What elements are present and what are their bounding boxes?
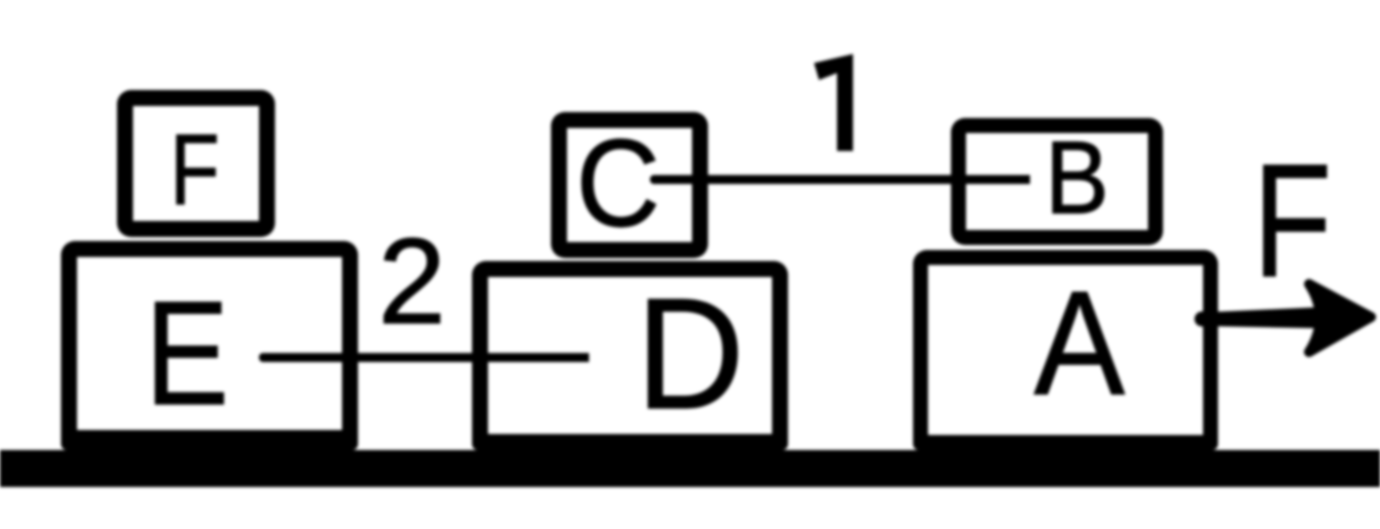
label A	[1034, 270, 1125, 418]
label C	[576, 122, 660, 246]
label D	[636, 275, 744, 433]
label F	[170, 120, 219, 220]
label 2	[378, 220, 446, 342]
ground	[0, 450, 1380, 487]
rope 2 (E to D)	[259, 353, 589, 362]
block E	[61, 241, 358, 450]
label F (force)	[1253, 141, 1332, 302]
rope 1 (C to B)	[650, 175, 1030, 184]
label 1	[795, 48, 875, 158]
block A	[913, 250, 1218, 450]
block F	[117, 90, 275, 237]
block D	[472, 261, 788, 450]
block C	[551, 112, 708, 258]
label B	[1045, 126, 1109, 229]
label E	[145, 280, 229, 428]
block B	[951, 118, 1163, 245]
